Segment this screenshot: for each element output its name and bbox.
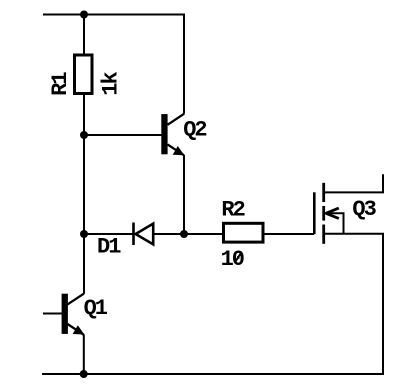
svg-text:Q3: Q3 [352,197,376,222]
svg-text:1k: 1k [98,71,123,95]
svg-text:R2: R2 [221,197,244,222]
svg-text:D1: D1 [97,235,121,260]
svg-text:10: 10 [221,247,244,272]
svg-text:R1: R1 [48,72,73,96]
svg-text:Q1: Q1 [84,296,108,321]
svg-text:Q2: Q2 [183,117,206,142]
